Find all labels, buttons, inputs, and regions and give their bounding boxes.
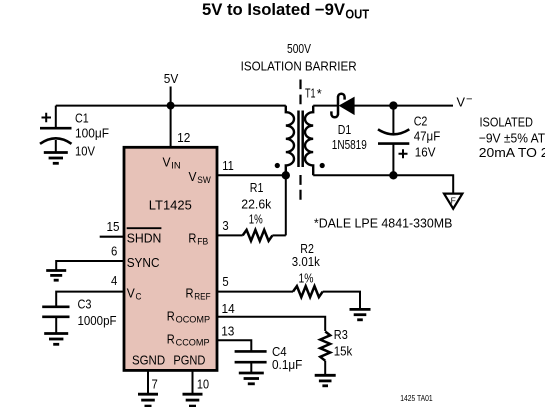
svg-text:14: 14	[222, 301, 235, 316]
svg-text:10: 10	[197, 377, 209, 392]
svg-text:C3: C3	[78, 297, 92, 312]
node phase dot primary	[275, 163, 280, 168]
ground SYNC	[46, 271, 66, 281]
svg-text:1000pF: 1000pF	[78, 313, 117, 328]
svg-text:6: 6	[111, 244, 117, 259]
wire 5V stub	[170, 87, 172, 106]
node junction 5V	[167, 102, 175, 110]
ground SGND	[138, 394, 158, 406]
wire VIN pin12	[170, 106, 172, 148]
node junction C2 top	[389, 101, 397, 109]
wire RFB pin3	[217, 234, 243, 236]
svg-text:3.01k: 3.01k	[292, 254, 320, 269]
ground C1	[44, 153, 68, 164]
svg-text:OCOMP: OCOMP	[176, 315, 211, 326]
diode D1 schottky	[331, 94, 344, 118]
svg-text:1%: 1%	[299, 270, 314, 285]
svg-text:R: R	[167, 309, 175, 324]
ground PGND	[183, 394, 203, 406]
node junction C2 bottom	[389, 171, 397, 179]
wire 5V rail	[56, 105, 286, 107]
svg-text:PGND: PGND	[173, 353, 205, 368]
svg-text:C2: C2	[414, 113, 428, 128]
svg-text:22.6k: 22.6k	[241, 197, 271, 212]
svg-text:FB: FB	[197, 236, 208, 247]
op IC U1 LT1425	[124, 147, 217, 370]
pin 15 SHDN stub	[100, 236, 124, 238]
svg-text:100μF: 100μF	[75, 125, 109, 140]
wire SGND pin7	[147, 370, 149, 394]
wire diode to V- rail	[355, 105, 454, 107]
svg-text:T1: T1	[305, 85, 316, 100]
svg-text:−: −	[466, 94, 473, 106]
svg-text:D1: D1	[338, 122, 352, 137]
resistor R1	[243, 230, 273, 241]
svg-text:R: R	[186, 285, 194, 300]
wire secondary top to diode	[313, 105, 338, 107]
svg-text:C: C	[136, 291, 142, 302]
svg-text:ISOLATION BARRIER: ISOLATION BARRIER	[241, 59, 357, 74]
wire VC pin4	[56, 292, 124, 306]
svg-text:5: 5	[222, 274, 228, 289]
wire RCCOMP pin13	[217, 340, 251, 351]
svg-text:1N5819: 1N5819	[332, 137, 367, 152]
svg-text:IN: IN	[171, 160, 181, 171]
wire R1 to node	[272, 234, 285, 236]
svg-text:12: 12	[177, 130, 190, 145]
transformer T1 secondary	[305, 106, 313, 176]
svg-text:10V: 10V	[75, 143, 95, 158]
node junction VSW/primary	[282, 171, 290, 179]
wire R2 to ground	[323, 292, 360, 310]
wire R1 branch vertical	[285, 175, 287, 235]
ground R2	[350, 309, 371, 319]
svg-text:5V to Isolated −9V: 5V to Isolated −9V	[202, 1, 345, 19]
wire PGND pin10	[192, 370, 194, 394]
svg-text:OUT: OUT	[345, 7, 369, 21]
capacitor C3	[42, 307, 69, 334]
svg-text:15: 15	[107, 219, 120, 234]
svg-text:SGND: SGND	[132, 353, 165, 368]
svg-text:ISOLATED: ISOLATED	[480, 114, 534, 129]
svg-text:R: R	[188, 230, 196, 245]
transformer core	[297, 111, 300, 168]
svg-text:1425 TA01: 1425 TA01	[400, 394, 433, 403]
ground C3	[44, 334, 68, 345]
capacitor C1	[40, 106, 72, 153]
isolation barrier dashed line lower	[299, 175, 301, 200]
svg-text:C1: C1	[75, 111, 89, 126]
svg-text:15k: 15k	[334, 343, 353, 358]
svg-text:20mA TO 200mA: 20mA TO 200mA	[479, 145, 545, 160]
svg-text:F: F	[451, 196, 456, 206]
ground floating F	[444, 194, 462, 209]
svg-text:16V: 16V	[415, 145, 436, 160]
wire R3 to ground	[324, 361, 326, 376]
wire secondary bottom rail	[313, 175, 453, 193]
capacitor C4	[235, 351, 267, 373]
capacitor C2	[378, 106, 409, 176]
svg-text:REF: REF	[194, 291, 210, 302]
resistor R2	[293, 286, 323, 297]
isolation barrier dashed line upper	[299, 80, 301, 105]
node phase dot secondary	[320, 163, 325, 168]
svg-text:SYNC: SYNC	[127, 255, 160, 270]
transformer T1 primary	[286, 106, 294, 176]
svg-text:47μF: 47μF	[414, 129, 441, 144]
wire RREF pin5	[217, 291, 293, 293]
svg-text:1%: 1%	[249, 211, 263, 226]
svg-text:R: R	[167, 331, 175, 346]
ground C4	[239, 373, 264, 384]
svg-text:4: 4	[111, 273, 117, 288]
svg-text:11: 11	[222, 158, 234, 173]
svg-text:3: 3	[222, 218, 228, 233]
svg-text:CCOMP: CCOMP	[176, 337, 210, 348]
svg-text:7: 7	[152, 377, 158, 392]
wire VSW pin11	[217, 174, 286, 176]
svg-text:R1: R1	[250, 180, 264, 195]
svg-text:SW: SW	[197, 175, 211, 186]
svg-text:−9V ±5% AT: −9V ±5% AT	[479, 130, 545, 145]
ground R3	[315, 375, 336, 386]
svg-text:500V: 500V	[287, 41, 311, 56]
svg-text:0.1μF: 0.1μF	[272, 357, 302, 372]
svg-text:V: V	[457, 94, 466, 109]
svg-text:R3: R3	[334, 327, 348, 342]
resistor R3	[320, 332, 330, 361]
svg-text:V: V	[163, 154, 171, 169]
svg-text:SHDN: SHDN	[127, 230, 162, 245]
wire SYNC pin6	[56, 261, 124, 271]
svg-text:V: V	[189, 169, 197, 184]
svg-text:*: *	[317, 86, 322, 101]
svg-text:13: 13	[221, 323, 234, 338]
wire ROCOMP pin14	[217, 317, 325, 331]
svg-text:LT1425: LT1425	[149, 198, 192, 213]
svg-text:*DALE LPE 4841-330MB: *DALE LPE 4841-330MB	[314, 216, 453, 231]
svg-text:5V: 5V	[164, 71, 179, 86]
svg-text:V: V	[127, 285, 135, 300]
